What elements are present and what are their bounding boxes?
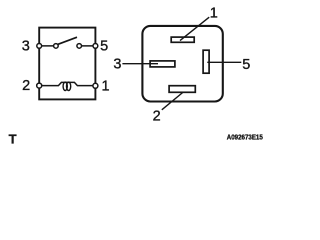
leader line pin 5 [207, 61, 241, 63]
switch contact circle right [77, 44, 82, 49]
pin 1 slot (top) [171, 37, 194, 42]
svg-text:5: 5 [242, 57, 250, 73]
pin 3 slot (left) [150, 61, 175, 67]
node: terminal 5 [93, 44, 98, 49]
connector housing outline [142, 26, 222, 102]
svg-text:T: T [9, 131, 17, 146]
pin 5 slot (right) [203, 50, 209, 73]
wire: terminal 3 node to fixed contact [39, 45, 56, 47]
node: terminal 1 [93, 83, 98, 88]
relay body box K1 [39, 28, 95, 100]
leader line pin 3 [122, 63, 158, 65]
switch contact circle left [54, 44, 59, 49]
coil L1 loop 2 [67, 82, 71, 90]
wire: terminal 2 node to coil, coil plateau, coil to terminal 1 node [42, 82, 94, 85]
switch blade (movable contact, open) [58, 37, 77, 44]
svg-text:1: 1 [210, 6, 218, 22]
wire: fixed contact to terminal 5 node [79, 45, 95, 47]
leader line pin 1 [180, 17, 209, 40]
svg-text:1: 1 [101, 78, 109, 94]
svg-text:A092673E15: A092673E15 [227, 132, 263, 141]
node: terminal 3 [37, 44, 42, 49]
svg-text:2: 2 [22, 78, 30, 94]
pin 2 slot (bottom) [169, 86, 195, 93]
coil L1 loop 1 [63, 82, 67, 90]
svg-text:2: 2 [153, 108, 161, 124]
svg-text:3: 3 [22, 38, 30, 54]
svg-text:3: 3 [113, 56, 121, 72]
leader line pin 2 [162, 92, 184, 110]
svg-text:5: 5 [100, 38, 108, 54]
node: terminal 2 [37, 83, 42, 88]
